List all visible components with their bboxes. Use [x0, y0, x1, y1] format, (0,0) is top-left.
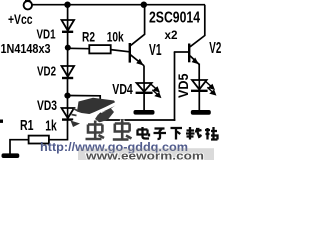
ground (VD5)	[191, 110, 211, 115]
载	[186, 127, 202, 140]
wire R2 to V1 base	[111, 50, 130, 52]
node VD1-VD2 / R2	[65, 45, 71, 51]
svg-text:VD3: VD3	[37, 98, 57, 113]
wire R1 to ground	[10, 140, 29, 154]
watermark 电子下载站 (drawn)	[138, 127, 218, 140]
VD5 light arrows	[206, 81, 216, 94]
svg-text:1k: 1k	[45, 119, 57, 135]
diode VD1	[62, 20, 75, 31]
watermark beetle wing	[71, 98, 119, 127]
node VD2-VD3 / V2 base tap	[64, 93, 70, 99]
ground (left)	[2, 153, 20, 158]
wire rail-VD1-VD2	[67, 5, 69, 67]
svg-text:x2: x2	[165, 28, 178, 42]
watermark bug char 1	[86, 121, 105, 140]
wire V1 emitter to VD4	[143, 66, 145, 84]
resistor R2	[89, 45, 110, 53]
white swoosh	[72, 103, 119, 123]
transistor V2	[188, 5, 205, 65]
wire to V2 base	[174, 51, 188, 53]
V1 emitter	[131, 55, 144, 66]
VD1 cathode bar	[62, 31, 73, 33]
resistor R1	[29, 136, 49, 144]
node rail-VD1	[64, 1, 70, 7]
body lower right	[95, 109, 114, 123]
svg-text:R1: R1	[20, 118, 34, 134]
wire tap across bottom	[99, 119, 175, 121]
svg-text:V2: V2	[209, 40, 221, 57]
站	[205, 127, 218, 140]
子	[154, 129, 167, 140]
svg-text:10k: 10k	[107, 29, 124, 45]
V2 collector	[190, 5, 205, 47]
transistor V1	[129, 5, 145, 66]
ground (VD4)	[134, 110, 155, 115]
svg-text:R2: R2	[82, 29, 95, 45]
diode VD2	[62, 66, 75, 77]
svg-text:VD2: VD2	[37, 63, 56, 78]
V2 base bar	[188, 44, 190, 63]
watermark band tint	[78, 148, 214, 160]
svg-text:VD1: VD1	[37, 27, 56, 42]
diode VD3	[62, 108, 75, 118]
svg-text:VD4: VD4	[112, 82, 133, 98]
svg-text:VD5: VD5	[175, 73, 191, 98]
wire to R2	[68, 47, 90, 49]
wire VD2-VD3	[67, 77, 69, 109]
wire VD3 to R1 corner	[49, 120, 68, 140]
svg-text:www.eeworm.com: www.eeworm.com	[85, 150, 205, 160]
下	[171, 128, 183, 140]
terminal +Vcc	[25, 0, 31, 2]
wire V2 emitter to VD5	[198, 64, 200, 81]
wire tap down	[99, 95, 101, 121]
svg-text:1N4148x3: 1N4148x3	[1, 41, 51, 56]
wire VD4 to ground	[143, 93, 145, 111]
svg-text:V1: V1	[149, 42, 162, 59]
V2 emitter	[190, 56, 199, 65]
watermark bug char 2	[113, 120, 132, 140]
电	[138, 127, 150, 139]
V1 collector	[131, 5, 145, 46]
LED VD5	[192, 80, 207, 89]
VD4 light arrows	[151, 84, 161, 97]
LED VD4	[137, 83, 152, 92]
svg-text:2SC9014: 2SC9014	[149, 9, 200, 26]
wire top rail	[32, 4, 205, 6]
svg-text:+Vcc: +Vcc	[8, 12, 33, 27]
V1 base bar	[129, 43, 131, 63]
antenna marks	[72, 109, 79, 116]
wire VD5 to ground	[198, 91, 200, 111]
wire tap up to V2 base	[174, 52, 176, 121]
node rail-V1 collector	[141, 1, 147, 7]
wire tap right	[68, 95, 102, 97]
stray mark left edge	[0, 120, 3, 123]
tail lower left	[71, 121, 81, 128]
wing upper	[77, 98, 117, 115]
